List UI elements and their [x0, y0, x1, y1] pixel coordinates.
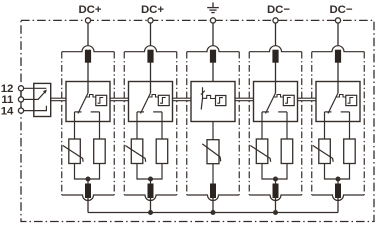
module 4 dash-dot box left edge	[248, 52, 250, 195]
wire terminal 12 to contact box	[24, 87, 47, 89]
status indicator step glyph	[98, 98, 104, 104]
wire plug to disconnector box	[212, 63, 214, 82]
right fixed contact	[91, 111, 100, 113]
wire terminal 4 down to module plug	[275, 23, 277, 46]
module 4 bottom edge with plug-in cup	[249, 195, 302, 201]
wire terminal 14 to contact box	[24, 106, 47, 111]
terminal node 4 on top bus	[273, 18, 278, 23]
wire right contact down to series element	[99, 112, 101, 139]
module 3 bottom plug contact (fuse link)	[210, 184, 216, 199]
status indicator box	[158, 95, 169, 105]
wire plug to disconnector box	[87, 63, 89, 94]
wire right contact down to series element	[286, 112, 288, 139]
bottom common bus wire	[88, 212, 338, 214]
varistor diagonal stroke	[313, 146, 333, 162]
module 1 bottom edge with plug-in cup	[62, 195, 115, 201]
left fixed contact	[325, 111, 332, 113]
terminal node 12 on left border	[18, 86, 23, 91]
module 5 bottom edge with plug-in cup	[312, 195, 365, 201]
trip impulse link	[273, 95, 283, 98]
wire terminal 5 down to module plug	[337, 23, 339, 46]
wire disconnector box down to varistor	[212, 122, 214, 140]
wire terminal 1 down to module plug	[87, 23, 89, 46]
module 4 dash-dot box right edge	[301, 52, 303, 195]
svg-text:DC+: DC+	[78, 4, 101, 16]
status indicator step glyph	[160, 98, 166, 104]
wire varistor to junction	[262, 164, 276, 180]
terminal node 11 on left border	[18, 97, 23, 102]
wire left contact down to varistor	[261, 112, 263, 139]
junction node module 5	[336, 177, 341, 182]
module 3 top edge with plug-in dome	[187, 46, 240, 52]
wire bottom plug to bus	[212, 198, 214, 213]
wire terminal 2 down to module plug	[150, 23, 152, 46]
bus junction node at x=213.0	[211, 210, 216, 215]
module 4 top plug contact (fuse link)	[272, 50, 278, 63]
status indicator box	[216, 96, 226, 106]
left fixed contact	[75, 111, 82, 113]
module 1 top edge with plug-in dome	[62, 46, 115, 52]
wire bottom plug to bus	[275, 198, 277, 213]
wire terminal 11 to contact box	[24, 98, 38, 100]
svg-text:DC+: DC+	[141, 4, 164, 16]
wire varistor to junction	[75, 164, 89, 180]
module 4 bottom plug contact (fuse link)	[273, 184, 279, 199]
svg-text:DC−: DC−	[267, 4, 290, 16]
wire plug to disconnector box	[150, 63, 152, 94]
module 5 thermal disconnector box	[316, 82, 360, 122]
left fixed contact	[137, 111, 144, 113]
disconnector switch blade	[141, 93, 151, 114]
module 3 top plug contact (fuse link)	[210, 50, 216, 63]
junction node module 1	[86, 177, 91, 182]
module 1 top plug contact (fuse link)	[85, 50, 91, 63]
wire series element to junction	[88, 164, 100, 180]
module 2 dash-dot box left edge	[123, 52, 125, 195]
trip impulse link	[86, 95, 96, 98]
module 2 top plug contact (fuse link)	[147, 50, 153, 63]
wire right contact down to series element	[161, 112, 163, 139]
varistor diagonal stroke	[202, 144, 220, 162]
svg-text:11: 11	[1, 94, 14, 106]
module 4 thermal disconnector box	[254, 82, 298, 122]
module 2 bottom edge with plug-in cup	[124, 195, 177, 201]
status indicator box	[283, 95, 294, 105]
ground symbol (PE terminal)	[207, 2, 219, 12]
status indicator step glyph	[217, 98, 223, 104]
varistor body	[319, 139, 331, 164]
wire series element to junction	[151, 164, 163, 180]
mechanical linkage double line 2	[110, 98, 129, 101]
trip impulse link	[336, 95, 346, 98]
varistor body	[256, 139, 268, 164]
left border solid segment between terminals 11-14	[20, 102, 22, 108]
spark gap electrode	[201, 87, 202, 109]
bus junction node at x=275.5	[273, 210, 278, 215]
wire junction down to bottom plug	[275, 179, 277, 184]
module 5 dash-dot box right edge	[363, 52, 365, 195]
wire varistor to bottom plug	[212, 164, 214, 184]
bus junction node at x=150.5	[148, 210, 153, 215]
wire left contact down to varistor	[324, 112, 326, 139]
trip impulse link	[148, 95, 158, 98]
trip impulse link	[203, 95, 216, 98]
status indicator step glyph	[285, 98, 291, 104]
varistor body	[131, 139, 143, 164]
terminal node 3 on top bus	[210, 18, 215, 23]
module 5 top plug contact (fuse link)	[335, 50, 341, 63]
wire bottom plug to bus	[337, 198, 339, 213]
wire junction down to bottom plug	[150, 179, 152, 184]
series element body	[344, 139, 356, 164]
series element body	[94, 139, 106, 164]
wire junction down to bottom plug	[337, 179, 339, 184]
varistor diagonal stroke	[125, 146, 145, 162]
mechanical linkage double line 1	[51, 98, 66, 101]
mechanical linkage double line 3	[173, 98, 192, 101]
wire bottom plug to bus	[150, 198, 152, 213]
varistor body	[69, 139, 81, 164]
wire bottom plug to bus	[87, 198, 89, 213]
module 5 dash-dot box left edge	[311, 52, 313, 195]
right fixed contact	[278, 111, 287, 113]
module 3 bottom edge with plug-in cup	[187, 195, 240, 201]
module 5 top edge with plug-in dome	[312, 46, 365, 52]
wire plug to disconnector box	[275, 63, 277, 94]
wire series element to junction	[338, 164, 350, 180]
status indicator box	[346, 95, 357, 105]
varistor body	[207, 140, 219, 164]
module 3 thermal disconnector box	[191, 82, 235, 122]
svg-text:14: 14	[1, 105, 14, 117]
right fixed contact	[153, 111, 162, 113]
terminal node 14 on left border	[18, 108, 23, 113]
module 2 thermal disconnector box	[129, 82, 173, 122]
changeover contact K1 (remote signalling) box	[34, 83, 51, 116]
wire varistor to junction	[137, 164, 151, 180]
disconnector switch blade	[266, 93, 276, 114]
terminal node 2 on top bus	[148, 18, 153, 23]
wire terminal 3 down to module plug	[212, 23, 214, 46]
wire left contact down to varistor	[136, 112, 138, 139]
junction node module 4	[273, 177, 278, 182]
disconnector switch blade	[328, 93, 338, 114]
varistor diagonal stroke	[250, 146, 270, 162]
wire junction down to bottom plug	[87, 179, 89, 184]
module 5 bottom plug contact (fuse link)	[335, 184, 341, 199]
enclosure dash-dot border	[21, 20, 374, 221]
mechanical linkage double line 4	[235, 98, 254, 101]
module 2 dash-dot box right edge	[176, 52, 178, 195]
module 1 dash-dot box left edge	[61, 52, 63, 195]
status indicator step glyph	[348, 98, 354, 104]
module 4 top edge with plug-in dome	[249, 46, 302, 52]
left fixed contact	[262, 111, 269, 113]
wire left contact down to varistor	[74, 112, 76, 139]
wire right contact down to series element	[349, 112, 351, 139]
mechanical linkage double line 5	[298, 98, 317, 101]
wire varistor to junction	[325, 164, 339, 180]
terminal node 5 on top bus	[335, 18, 340, 23]
terminal node 1 on top bus	[85, 18, 90, 23]
module 3 dash-dot box right edge	[238, 52, 240, 195]
junction node module 2	[148, 177, 153, 182]
series element body	[281, 139, 293, 164]
module 2 bottom plug contact (fuse link)	[148, 184, 154, 199]
series element body	[156, 139, 168, 164]
varistor diagonal stroke	[63, 146, 83, 162]
module 1 bottom plug contact (fuse link)	[85, 184, 91, 199]
right fixed contact	[341, 111, 350, 113]
disconnector switch blade	[78, 93, 88, 114]
module 3 dash-dot box left edge	[186, 52, 188, 195]
module 2 top edge with plug-in dome	[124, 46, 177, 52]
changeover contact K1 blade with arrow	[38, 92, 46, 100]
module 1 thermal disconnector box	[66, 82, 110, 122]
wire series element to junction	[276, 164, 288, 180]
status indicator box	[96, 95, 107, 105]
svg-text:DC−: DC−	[329, 4, 352, 16]
left border solid segment between terminals 12-11	[20, 91, 22, 97]
wire plug to disconnector box	[337, 63, 339, 94]
module 1 dash-dot box right edge	[113, 52, 115, 195]
